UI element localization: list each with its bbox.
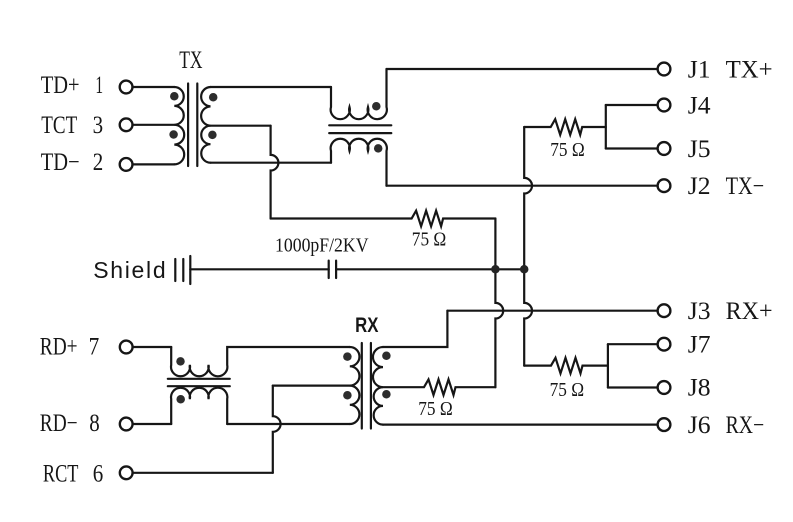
svg-text:3: 3 bbox=[93, 112, 104, 139]
svg-text:75 Ω: 75 Ω bbox=[412, 229, 447, 250]
shield label bbox=[93, 257, 167, 283]
terminal J2 bbox=[658, 179, 671, 192]
svg-text:RCT: RCT bbox=[43, 460, 79, 487]
transformer T2 core bbox=[362, 343, 371, 429]
capacitor C1 plates bbox=[329, 261, 336, 278]
dot L1 top bbox=[372, 102, 381, 111]
terminal J7 bbox=[658, 338, 671, 351]
wire RCT lead bbox=[133, 472, 273, 474]
wire RD- lead bbox=[133, 423, 172, 425]
label R4 75 ohm bbox=[550, 380, 585, 401]
label J4 bbox=[688, 92, 711, 119]
transformer T2 primary winding bbox=[350, 347, 360, 424]
terminal TCT 3 label bbox=[41, 112, 103, 139]
svg-text:TD+: TD+ bbox=[41, 72, 80, 99]
svg-text:RX−: RX− bbox=[726, 412, 765, 439]
dot T2 secondary bottom bbox=[382, 390, 391, 399]
choke L1 bottom winding bbox=[331, 139, 387, 186]
label J6 RX- bbox=[688, 412, 764, 439]
terminal TD- 2 label bbox=[41, 149, 104, 176]
wire J7-J8 vertical bbox=[607, 344, 609, 387]
label J1 TX+ bbox=[688, 56, 773, 83]
label R3 75 ohm bbox=[418, 399, 453, 420]
wire to J8 bbox=[608, 386, 658, 388]
terminal J3 bbox=[658, 304, 671, 317]
resistor R3 75ohm RX termination bbox=[383, 379, 495, 395]
dot L2 bottom bbox=[176, 395, 185, 404]
svg-text:TD−: TD− bbox=[41, 149, 80, 176]
resistor R4 75ohm to J7/J8 bbox=[524, 358, 608, 374]
terminal pin TCT 3 bbox=[120, 118, 133, 131]
junction dot B bbox=[520, 265, 529, 274]
wire J3 line bbox=[447, 310, 657, 312]
wire T1 secondary top to choke L1 bbox=[211, 86, 332, 88]
wire T1 secondary bottom to choke L1 bbox=[211, 162, 332, 164]
label R2 75 ohm bbox=[550, 140, 585, 161]
transformer T1 secondary winding bbox=[201, 87, 210, 163]
shield symbol bars bbox=[175, 256, 190, 284]
svg-text:75 Ω: 75 Ω bbox=[550, 140, 585, 161]
label J5 bbox=[688, 136, 711, 163]
dot T1 primary bottom bbox=[169, 130, 178, 139]
terminal pin RCT 6 bbox=[120, 466, 133, 479]
wire TCT lead bbox=[133, 124, 175, 126]
svg-text:J4: J4 bbox=[688, 92, 711, 119]
wire to J1 bbox=[387, 68, 658, 70]
svg-text:Shield: Shield bbox=[93, 257, 167, 283]
resistor R2 75ohm to J4/J5 bbox=[524, 119, 606, 135]
wire to J4 bbox=[606, 104, 658, 106]
terminal J4 bbox=[658, 99, 671, 112]
label J8 bbox=[688, 375, 711, 402]
resistor R1 75ohm (center) bbox=[271, 211, 496, 227]
terminal J6 bbox=[658, 418, 671, 431]
label J7 bbox=[688, 332, 711, 359]
transformer T1 label TX bbox=[179, 47, 202, 74]
wire choke L2 to RX transformer bottom bbox=[227, 423, 350, 425]
svg-text:J5: J5 bbox=[688, 136, 711, 163]
svg-text:TX: TX bbox=[179, 47, 202, 74]
wire to J7 bbox=[608, 343, 658, 345]
terminal pin TD- 2 bbox=[120, 158, 133, 171]
svg-text:J1: J1 bbox=[688, 56, 711, 83]
terminal RCT 6 label bbox=[43, 460, 103, 487]
svg-text:6: 6 bbox=[93, 460, 104, 487]
dot T2 primary top bbox=[343, 352, 352, 361]
wire TD+ lead bbox=[133, 86, 175, 88]
svg-text:J8: J8 bbox=[688, 375, 711, 402]
svg-text:75 Ω: 75 Ω bbox=[550, 380, 585, 401]
wire shield to capacitor bbox=[190, 268, 328, 270]
transformer T1 primary winding bbox=[174, 87, 184, 164]
svg-text:TX−: TX− bbox=[726, 173, 765, 200]
svg-text:RX: RX bbox=[355, 313, 379, 337]
dot T2 secondary top bbox=[382, 352, 391, 361]
svg-text:J2: J2 bbox=[688, 173, 711, 200]
svg-text:RD+: RD+ bbox=[40, 334, 78, 361]
transformer T2 label RX bbox=[355, 313, 379, 337]
terminal J8 bbox=[658, 381, 671, 394]
wire J4-J5 vertical bbox=[605, 105, 607, 149]
terminal J5 bbox=[658, 142, 671, 155]
svg-text:J7: J7 bbox=[688, 332, 711, 359]
label R1 75 ohm bbox=[412, 229, 447, 250]
wire to J2 bbox=[387, 185, 658, 187]
dot L1 bottom bbox=[374, 144, 383, 153]
junction dot A bbox=[491, 265, 500, 274]
capacitor C1 label bbox=[275, 236, 369, 257]
choke L2 core bbox=[168, 379, 230, 386]
label J3 RX+ bbox=[688, 298, 773, 325]
dot T1 secondary top bbox=[209, 93, 218, 102]
svg-text:RX+: RX+ bbox=[726, 298, 773, 325]
dot L2 top bbox=[176, 357, 185, 366]
dot T1 secondary bottom bbox=[208, 131, 217, 140]
wire RD+ lead bbox=[133, 346, 172, 348]
terminal pin RD+ 7 bbox=[120, 341, 133, 354]
choke L2 top winding bbox=[171, 347, 350, 376]
svg-text:1: 1 bbox=[95, 72, 103, 99]
terminal pin TD+ 1 bbox=[120, 81, 133, 94]
svg-text:TX+: TX+ bbox=[726, 56, 773, 83]
transformer T2 secondary winding bbox=[373, 347, 383, 425]
wire R2 vertical: hop J2, junction shield, hop J3, to R4 bbox=[524, 127, 532, 366]
label J2 TX- bbox=[688, 173, 764, 200]
choke L2 bottom winding bbox=[171, 388, 227, 424]
terminal pin RD- 8 bbox=[120, 418, 133, 431]
svg-text:J3: J3 bbox=[688, 298, 711, 325]
wire TD- lead bbox=[133, 163, 175, 165]
wire T1 secondary center tap bbox=[211, 125, 271, 127]
choke L1 core bbox=[329, 125, 391, 133]
wire capacitor to junctions bbox=[336, 268, 524, 270]
svg-text:1000pF/2KV: 1000pF/2KV bbox=[275, 236, 369, 257]
svg-text:TCT: TCT bbox=[41, 112, 77, 139]
wire center-tap vertical with hop over bottom lead bbox=[271, 126, 279, 219]
terminal RD- 8 label bbox=[40, 410, 100, 437]
dot T2 primary bottom bbox=[343, 391, 352, 400]
wire to J6 bbox=[383, 424, 658, 426]
choke L1 top winding bbox=[331, 69, 387, 119]
terminal J1 bbox=[658, 63, 671, 76]
svg-text:75 Ω: 75 Ω bbox=[418, 399, 453, 420]
svg-text:8: 8 bbox=[89, 410, 100, 437]
wire R1 vertical down with hop over J3 line bbox=[495, 219, 503, 388]
svg-text:J6: J6 bbox=[688, 412, 711, 439]
terminal TD+ 1 label bbox=[41, 72, 103, 99]
transformer T1 core bbox=[188, 84, 197, 167]
dot T1 primary top bbox=[170, 92, 179, 101]
svg-text:2: 2 bbox=[93, 149, 104, 176]
svg-text:RD−: RD− bbox=[40, 410, 78, 437]
wire RCT to RX center tap bbox=[273, 385, 350, 387]
svg-text:7: 7 bbox=[89, 334, 100, 361]
wire to J5 bbox=[606, 147, 658, 149]
terminal RD+ 7 label bbox=[40, 334, 99, 361]
wire J3 down to RX transformer top bbox=[383, 311, 447, 347]
wire RCT vertical with hop over RD- line bbox=[273, 386, 281, 473]
